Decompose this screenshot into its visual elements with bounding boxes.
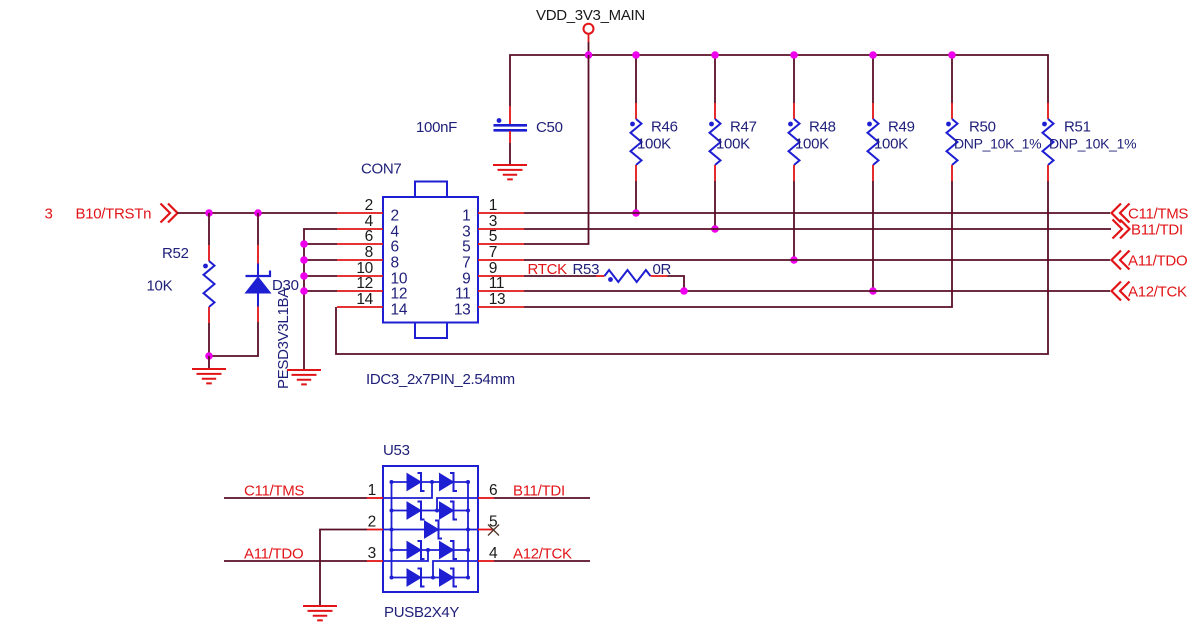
- svg-text:3: 3: [368, 545, 376, 562]
- svg-text:100K: 100K: [716, 135, 750, 152]
- svg-text:2: 2: [391, 208, 399, 225]
- resistor R51: [1042, 103, 1136, 181]
- svg-text:DNP_10K_1%: DNP_10K_1%: [1049, 135, 1136, 151]
- U53 diode A1: [407, 473, 425, 491]
- wire R47 to pin3 row: [714, 181, 716, 229]
- CON7 right pin numbers inside: [454, 208, 471, 319]
- svg-text:A11/TDO: A11/TDO: [1128, 253, 1187, 270]
- svg-text:A11/TDO: A11/TDO: [244, 546, 303, 563]
- svg-text:B10/TRSTn: B10/TRSTn: [76, 206, 152, 223]
- svg-text:1: 1: [462, 208, 470, 225]
- power symbol VDD_3V3_MAIN: [536, 7, 645, 42]
- junction gnd pin10: [300, 272, 308, 280]
- wire pin1 to port TMS: [524, 212, 1110, 214]
- svg-text:6: 6: [391, 239, 399, 256]
- junction R46 top: [632, 51, 640, 59]
- svg-text:R47: R47: [730, 119, 757, 136]
- wire pin7 to port TDO: [524, 259, 1110, 261]
- CON7 right pins: [478, 213, 524, 307]
- port A12/TCK: [1112, 282, 1188, 301]
- resistor R52: [147, 213, 215, 323]
- svg-text:VDD_3V3_MAIN: VDD_3V3_MAIN: [536, 7, 645, 24]
- wire R51 to pin14 row: [336, 181, 1048, 354]
- U53 pin4 internal: [433, 561, 478, 578]
- U53 pin numbers: [368, 482, 498, 562]
- svg-text:R51: R51: [1064, 119, 1091, 136]
- CON7 left pin numbers inside: [391, 208, 408, 319]
- ground under C50: [493, 165, 527, 179]
- svg-text:B11/TDI: B11/TDI: [513, 483, 565, 500]
- capacitor C50: [416, 106, 563, 143]
- port B11/TDI: [1113, 220, 1183, 239]
- svg-text:U53: U53: [383, 442, 410, 459]
- U53 pin3 internal: [383, 550, 428, 561]
- svg-text:PUSB2X4Y: PUSB2X4Y: [384, 604, 459, 621]
- svg-text:C50: C50: [536, 119, 563, 136]
- svg-text:2: 2: [365, 197, 373, 214]
- svg-text:R52: R52: [162, 245, 189, 262]
- port B10/TRSTn: [45, 204, 178, 223]
- port C11/TMS: [1112, 204, 1189, 223]
- wire U53 pin6 to B11/TDI: [494, 483, 590, 500]
- CON7 left pins: [337, 213, 383, 307]
- junction gnd pin6: [300, 240, 308, 248]
- CON7 right pin numbers outside: [489, 197, 506, 308]
- wire R46 to pin1 row: [635, 181, 637, 213]
- svg-text:7: 7: [462, 255, 470, 272]
- svg-text:IDC3_2x7PIN_2.54mm: IDC3_2x7PIN_2.54mm: [366, 371, 515, 388]
- wire R53 to pin11 row: [668, 276, 685, 291]
- ESD array U53: [383, 442, 478, 621]
- no-connect X pin5: [488, 525, 499, 536]
- U53 diode B1: [407, 502, 425, 520]
- svg-text:6: 6: [489, 482, 497, 499]
- svg-text:3: 3: [45, 206, 53, 223]
- junction gnd pin12: [300, 287, 308, 295]
- wire pin3 to port TDI: [524, 228, 1111, 230]
- ground under U53 pin2: [303, 606, 337, 620]
- svg-text:R50: R50: [969, 119, 996, 136]
- U53 diode D2: [440, 541, 458, 559]
- svg-text:R53: R53: [573, 261, 600, 278]
- svg-text:100K: 100K: [637, 135, 671, 152]
- svg-text:8: 8: [391, 255, 399, 272]
- svg-text:CON7: CON7: [361, 161, 401, 178]
- svg-text:11: 11: [489, 275, 505, 292]
- svg-text:100K: 100K: [874, 135, 908, 152]
- resistor R46: [630, 55, 678, 181]
- svg-text:C11/TMS: C11/TMS: [1128, 206, 1188, 223]
- U53 diode E2: [440, 569, 458, 587]
- U53 pin1 internal: [383, 482, 432, 498]
- svg-text:A12/TCK: A12/TCK: [1128, 284, 1187, 301]
- junction R47 top: [711, 51, 719, 59]
- svg-text:C11/TMS: C11/TMS: [244, 483, 304, 500]
- wire VDD bus: [510, 42, 1048, 106]
- wire pin5 to VDD: [524, 55, 589, 244]
- junction R52 top: [205, 209, 213, 217]
- wire D30 bottom: [209, 322, 258, 356]
- connector CON7: [361, 161, 515, 389]
- resistor R49: [867, 55, 915, 181]
- svg-text:B11/TDI: B11/TDI: [1131, 222, 1183, 239]
- U53 pin6 internal: [437, 498, 478, 511]
- svg-text:13: 13: [454, 302, 471, 319]
- U53 pin stubs: [367, 498, 494, 561]
- svg-text:8: 8: [365, 244, 373, 261]
- U53 internal rails: [383, 482, 478, 578]
- junction R50 top: [948, 51, 956, 59]
- U53 internal junction dots: [390, 480, 471, 580]
- svg-text:R46: R46: [651, 119, 678, 136]
- svg-text:5: 5: [489, 228, 497, 245]
- wire U53 pin2 to ground: [320, 530, 367, 607]
- junction R53 to TCK: [680, 287, 688, 295]
- svg-text:12: 12: [391, 286, 408, 303]
- wire CON7 gnd pins bus: [304, 229, 337, 370]
- junction R47 bottom: [711, 225, 719, 233]
- junction R46 bottom: [632, 209, 640, 217]
- U53 diode B2: [440, 502, 458, 520]
- svg-text:PESD3V3L1BA: PESD3V3L1BA: [275, 288, 292, 389]
- svg-text:A12/TCK: A12/TCK: [513, 546, 572, 563]
- svg-text:11: 11: [455, 286, 471, 303]
- resistor R48: [788, 55, 836, 181]
- wire to ground R52: [208, 356, 210, 369]
- wire R48 to pin7 row: [793, 181, 795, 260]
- CON7 left pin numbers outside: [356, 197, 373, 308]
- diode D30: [246, 213, 299, 389]
- ground under CON7 gnd bus: [287, 370, 321, 384]
- wire R49 to pin11 row: [872, 181, 874, 291]
- svg-text:5: 5: [462, 239, 470, 256]
- svg-text:10K: 10K: [147, 278, 173, 295]
- svg-text:DNP_10K_1%: DNP_10K_1%: [954, 135, 1041, 151]
- junction gnd pin8: [300, 256, 308, 264]
- U53 diode E1: [407, 569, 425, 587]
- junction D30 top: [254, 209, 262, 217]
- U53 diode D1: [407, 541, 425, 559]
- svg-text:1: 1: [489, 197, 497, 214]
- ground under R52: [192, 369, 226, 383]
- wire C50 to ground: [509, 143, 511, 165]
- port A11/TDO: [1112, 251, 1188, 270]
- svg-text:2: 2: [368, 514, 376, 531]
- svg-text:R48: R48: [809, 119, 836, 136]
- svg-text:12: 12: [356, 275, 373, 292]
- junction R49 top: [869, 51, 877, 59]
- svg-text:R49: R49: [888, 119, 915, 136]
- junction R52 bottom: [205, 352, 213, 360]
- svg-text:6: 6: [365, 228, 373, 245]
- svg-text:14: 14: [356, 291, 373, 308]
- svg-text:7: 7: [489, 244, 497, 261]
- resistor R47: [709, 55, 757, 181]
- junction VDD stem: [585, 51, 593, 59]
- svg-text:14: 14: [391, 302, 408, 319]
- resistor R50: [946, 55, 1041, 181]
- junction R49 bottom: [869, 287, 877, 295]
- svg-text:100nF: 100nF: [416, 119, 457, 136]
- resistor R53: [524, 261, 672, 282]
- wire C11/TMS to U53 pin1: [224, 483, 367, 500]
- wire TRSTn to pin2: [178, 212, 338, 214]
- wire R52 bottom: [208, 323, 210, 356]
- junction R48 top: [790, 51, 798, 59]
- wire U53 pin4 to A12/TCK: [494, 546, 590, 563]
- U53 zener C: [425, 521, 443, 539]
- wire pin11 to port TCK: [524, 290, 1110, 292]
- wire A11/TDO to U53 pin3: [224, 546, 367, 563]
- junction R48 bottom: [790, 256, 798, 264]
- svg-text:4: 4: [489, 545, 498, 562]
- svg-text:100K: 100K: [795, 135, 829, 152]
- U53 diode A2: [440, 473, 458, 491]
- wire R50 to pin13 row: [524, 181, 952, 307]
- svg-text:1: 1: [368, 482, 376, 499]
- svg-text:13: 13: [489, 291, 506, 308]
